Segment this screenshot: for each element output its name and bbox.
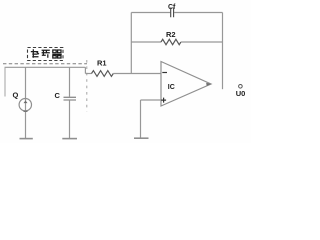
ground under C: [62, 138, 77, 140]
wire: non-inverting input horizontal: [141, 99, 162, 101]
svg-text:Q: Q: [13, 91, 19, 100]
wire: R2 left segment: [131, 41, 161, 43]
wire: top feedback left segment: [131, 12, 170, 14]
charge source arrow: [24, 101, 28, 104]
charge source Q circle: [19, 99, 31, 111]
ground under Q: [20, 138, 33, 140]
capacitor C plates: [64, 97, 77, 100]
dashed sensor boundary top line: [3, 63, 87, 65]
wire: bus step down to R1 wire: [84, 67, 86, 73]
wire: R2 right segment: [181, 41, 223, 43]
wire: C branch lower vertical: [69, 100, 71, 138]
op-amp non-inverting mark: [161, 98, 166, 103]
wire: right feedback vertical: [222, 13, 224, 90]
svg-text:U0: U0: [236, 89, 246, 98]
node: feedback left junction vertical: [130, 13, 132, 74]
dashed sensor boundary right line: [86, 60, 88, 112]
svg-text:Cf: Cf: [168, 4, 176, 11]
wire: R1 to op-amp inverting input: [113, 73, 161, 75]
wire: sensor top bus: [5, 66, 86, 68]
charge source arrow tail tick: [24, 110, 28, 112]
wire: non-inverting ground drop: [140, 100, 142, 138]
sensor label 传感器 (pseudo-glyphs): [31, 49, 62, 58]
wire: top feedback right segment: [174, 12, 223, 14]
sensor dashed label box: [28, 48, 64, 61]
wire: left stub vertical: [4, 67, 6, 96]
capacitor Cf plates: [171, 8, 174, 18]
svg-text:C: C: [55, 91, 61, 100]
op-amp IC triangle: [161, 62, 211, 107]
ground at op-amp + input: [134, 137, 149, 139]
wire: C branch upper vertical: [69, 67, 71, 97]
op-amp inverting mark: [162, 72, 167, 74]
wire: Q branch vertical: [25, 67, 27, 138]
resistor R1 zigzag: [92, 71, 114, 77]
op-amp output vertex tip: [206, 83, 211, 86]
resistor R2 zigzag: [161, 39, 181, 44]
svg-text:IC: IC: [168, 84, 175, 91]
svg-text:R1: R1: [97, 59, 107, 68]
output terminal U0 circle: [239, 85, 243, 89]
svg-text:R2: R2: [166, 30, 176, 39]
wire: bus to R1: [85, 73, 91, 75]
